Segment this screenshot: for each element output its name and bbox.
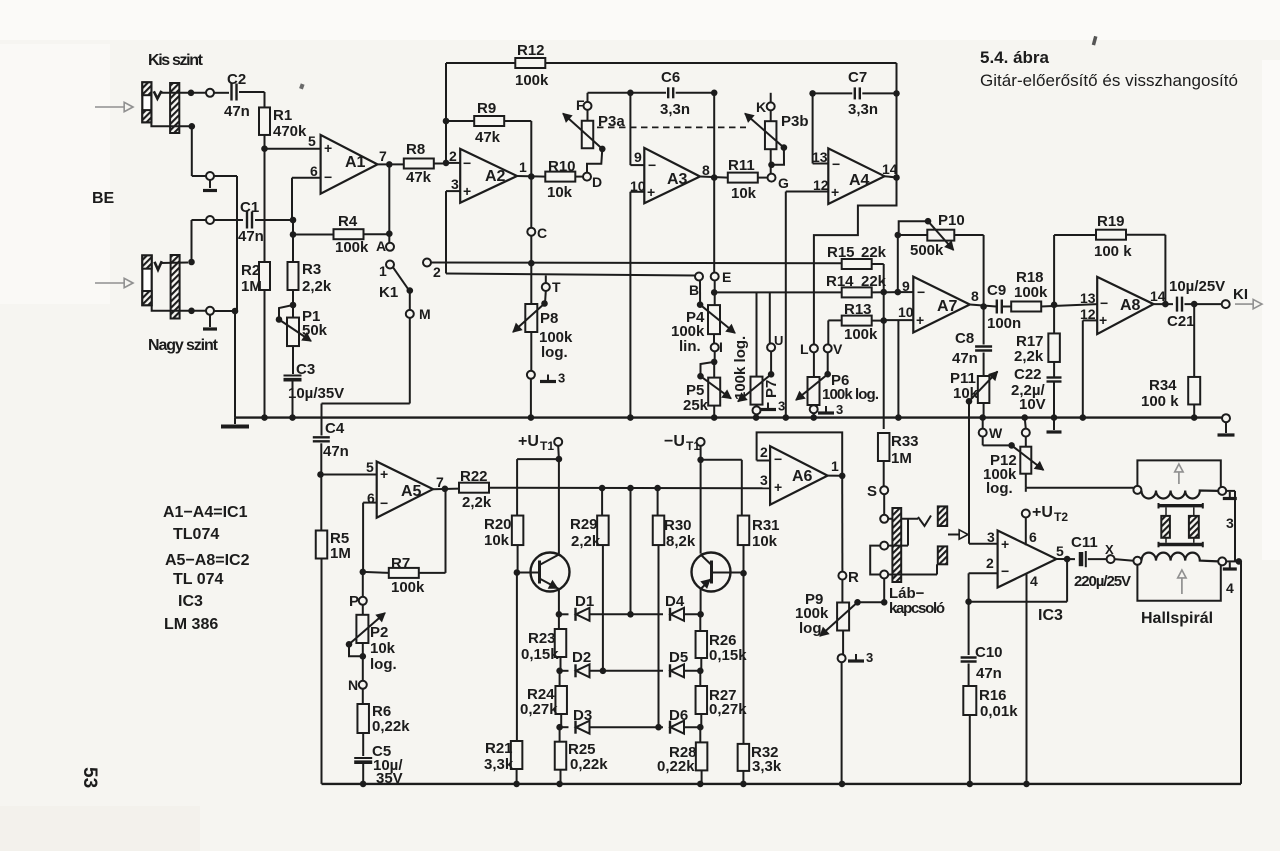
output arrow KI (1235, 303, 1253, 305)
node N (362, 643, 364, 681)
svg-text:6: 6 (310, 163, 318, 179)
node B (695, 273, 703, 281)
wire R1 node to A1 pin5 (265, 148, 321, 150)
op-amp A1 (321, 135, 378, 194)
svg-text:C1: C1 (240, 199, 259, 216)
svg-text:P: P (349, 593, 359, 610)
wire -UT1 rail (701, 459, 742, 461)
potentiometer P12 (1022, 429, 1030, 437)
svg-text:C9: C9 (987, 282, 1006, 299)
svg-text:C4: C4 (325, 420, 345, 437)
node K (770, 93, 772, 103)
resistor R24 (559, 671, 561, 686)
svg-text:C8: C8 (955, 330, 974, 347)
svg-text:2: 2 (986, 555, 994, 571)
wire R13 node down to R33 (883, 292, 885, 429)
wire A5 pin5 (321, 474, 376, 476)
wire A8 pin12 to bus (1083, 319, 1097, 321)
wire R31 to T2 base (743, 545, 745, 573)
svg-text:C11: C11 (1071, 534, 1098, 551)
potentiometer P7 (751, 377, 763, 405)
svg-text:47n: 47n (976, 665, 1002, 682)
wire P5 to bus (713, 406, 715, 418)
svg-text:100k: 100k (1014, 284, 1048, 301)
svg-text:100n: 100n (987, 315, 1021, 332)
capacitor C3 electrolytic (284, 375, 302, 377)
diode D5 (669, 664, 671, 677)
svg-text:100k log.: 100k log. (822, 386, 879, 403)
resistor R26 (699, 614, 701, 631)
resistor R14 (842, 287, 872, 297)
wire A6 output to R (828, 475, 843, 477)
capacitor C22 (1053, 362, 1055, 378)
svg-text:10k: 10k (547, 184, 573, 201)
svg-text:+: + (1099, 312, 1107, 328)
svg-text:3: 3 (760, 472, 768, 488)
resistor R31 (738, 516, 750, 546)
svg-text:+: + (774, 479, 782, 495)
wire R29 to D2 line (602, 545, 604, 671)
footswitch contact bottom (880, 571, 888, 579)
svg-text:−U: −U (664, 433, 685, 450)
node X (1088, 558, 1107, 560)
resistor R25 (559, 727, 561, 742)
wire C6 right to A3 out column (676, 92, 715, 94)
wire footswitch to P9 wiper line (883, 579, 885, 603)
svg-text:R30: R30 (664, 517, 692, 534)
wire C22 to bus (1053, 382, 1055, 418)
resistor R30 (657, 488, 659, 515)
svg-text:Hallspirál: Hallspirál (1141, 610, 1213, 627)
svg-text:10µ/25V: 10µ/25V (1169, 278, 1225, 295)
wire A2 output (517, 175, 546, 178)
wire A8 output (1154, 303, 1174, 305)
resistor R12 (515, 58, 545, 68)
op-amp A4 (828, 148, 884, 204)
svg-text:R14: R14 (826, 273, 854, 290)
svg-text:−: − (917, 284, 925, 300)
svg-text:+: + (380, 466, 388, 482)
wire R30 to D3 line (658, 545, 660, 727)
svg-text:E: E (722, 269, 731, 285)
wire P8 to terminal (530, 332, 532, 371)
big ground symbol (234, 418, 236, 424)
node P (362, 572, 364, 597)
svg-text:A5−A8=IC2: A5−A8=IC2 (165, 552, 250, 569)
svg-text:−: − (774, 451, 782, 467)
svg-text:−: − (1001, 563, 1009, 579)
svg-text:22k: 22k (861, 273, 887, 290)
wire P1 to C3 (292, 346, 294, 374)
resistor R4 (293, 234, 334, 236)
wire T1 base column to bottom rail (516, 573, 518, 742)
wire R13 left to V column (828, 319, 841, 321)
svg-text:47k: 47k (406, 169, 432, 186)
svg-text:F: F (576, 97, 585, 113)
svg-text:100k: 100k (335, 239, 369, 256)
svg-text:R15: R15 (827, 244, 855, 261)
svg-text:A6: A6 (792, 468, 813, 485)
svg-text:R1: R1 (273, 107, 292, 124)
svg-text:5.4. ábra: 5.4. ábra (980, 48, 1050, 67)
svg-text:4: 4 (1226, 580, 1234, 596)
transformer top box (1137, 460, 1220, 487)
wire L to P6 (813, 352, 815, 377)
wire P11 wiper to IC3 pin3 (968, 401, 970, 544)
svg-text:P2: P2 (370, 624, 388, 641)
svg-text:X: X (1105, 542, 1114, 557)
footswitch plug (892, 508, 901, 582)
wiper P4 from B (699, 280, 701, 305)
ground jack2 (209, 315, 211, 327)
svg-text:3: 3 (1226, 515, 1234, 531)
wire D6 to R27 node (684, 726, 700, 728)
potentiometer P10 (898, 234, 928, 236)
wire A5 pin6 loop (363, 502, 377, 504)
ganged dashed line (597, 126, 746, 128)
wire R12 top line (446, 62, 515, 64)
node KI output (1222, 300, 1230, 308)
node S (880, 486, 888, 494)
wire P8 terminal to bus (530, 379, 532, 418)
wire R14 right junction (872, 291, 898, 293)
wire IC3 pin4 to bottom rail (1026, 574, 1028, 784)
node U (769, 292, 771, 343)
wire A2 pin2 column (445, 63, 447, 163)
transformer top arrow (1178, 470, 1180, 484)
potentiometer P1 (292, 305, 294, 318)
svg-text:R11: R11 (728, 157, 755, 174)
svg-text:R19: R19 (1097, 213, 1125, 230)
diode D6 (669, 721, 671, 734)
svg-text:P7: P7 (763, 380, 780, 398)
svg-text:I: I (719, 339, 723, 355)
resistor R19 feedback (1053, 235, 1055, 305)
resistor R34 (1193, 304, 1195, 377)
svg-text:A4: A4 (849, 172, 870, 189)
potentiometer P4 (708, 305, 720, 334)
node R (838, 572, 846, 580)
svg-text:3: 3 (451, 176, 459, 192)
svg-text:K: K (756, 99, 766, 115)
svg-text:R21: R21 (485, 740, 513, 757)
wire P9 to bottom rail (841, 662, 843, 784)
jack J1 tip contact (154, 91, 162, 99)
wire R23 to D2 line (560, 657, 562, 671)
wire D1 line (590, 613, 664, 615)
resistor R9 (446, 120, 475, 122)
svg-text:M: M (419, 306, 431, 322)
wire R8 to A2 pin2 (434, 163, 446, 165)
ground mark 3 at P7 (767, 403, 769, 410)
svg-text:−: − (463, 155, 471, 171)
wire jack1 ground to jack2 column (214, 175, 237, 177)
svg-text:5: 5 (366, 459, 374, 475)
wiper P10 (899, 221, 928, 232)
op-amp A8 (1097, 277, 1153, 334)
resistor R8 (404, 159, 434, 169)
wire R34 to bus (1193, 405, 1195, 418)
wire C column (530, 177, 532, 228)
wire P12 to transformer (1025, 488, 1027, 492)
svg-text:A7: A7 (937, 298, 958, 315)
resistor R6 (362, 689, 364, 704)
input arrow 1 (95, 106, 124, 108)
jack J2 Nagy szint plug (142, 255, 151, 305)
svg-text:R33: R33 (891, 433, 919, 450)
wiper P3b bracket to G (772, 148, 785, 165)
svg-text:BE: BE (92, 190, 115, 207)
svg-text:2: 2 (449, 148, 457, 164)
svg-text:100k: 100k (844, 326, 878, 343)
wire A5 output (433, 488, 459, 491)
svg-text:log.: log. (370, 656, 397, 673)
wire jack1 tip to C2 (160, 92, 207, 94)
wire A4 pin12 to ground bus (786, 191, 829, 193)
wire R2 bottom to bus (264, 290, 266, 418)
wire R12 right column (896, 63, 898, 93)
svg-text:A8: A8 (1120, 297, 1141, 314)
resistor R32 (738, 744, 750, 771)
potentiometer P11 (983, 353, 985, 377)
svg-text:3: 3 (778, 399, 785, 414)
wire S to footswitch (883, 494, 885, 515)
wire A1 output node (378, 163, 404, 165)
svg-text:R16: R16 (979, 687, 1007, 704)
svg-text:500k: 500k (910, 242, 944, 259)
svg-text:7: 7 (379, 148, 387, 164)
svg-text:D5: D5 (669, 649, 688, 666)
wire R20 to T1 base (517, 545, 519, 573)
wire R32 to bottom rail (742, 771, 744, 784)
wire V to P6 wiper (827, 352, 829, 374)
svg-text:Kis szint: Kis szint (148, 52, 204, 69)
potentiometer P3a (587, 110, 589, 121)
svg-text:G: G (778, 175, 789, 191)
svg-text:+: + (463, 183, 471, 199)
svg-text:9: 9 (634, 149, 642, 165)
wire jack2 tip up to C1 line (160, 262, 188, 265)
wire IC3 output (1056, 558, 1075, 560)
resistor R22 (459, 483, 489, 493)
potentiometer P8 (530, 263, 532, 304)
svg-text:P10: P10 (938, 212, 965, 229)
svg-text:C: C (537, 225, 547, 241)
svg-text:N: N (348, 677, 358, 693)
wire P9 to terminal (842, 631, 844, 655)
svg-text:D2: D2 (572, 649, 591, 666)
svg-text:R20: R20 (484, 516, 512, 533)
svg-text:+U: +U (518, 433, 539, 450)
wire A3 pin9 column (629, 93, 631, 165)
svg-text:+: + (1001, 536, 1009, 552)
svg-text:9: 9 (902, 278, 910, 294)
wire C6 line (587, 93, 589, 102)
svg-text:−: − (380, 495, 388, 511)
wire R21 to bottom rail (516, 769, 518, 784)
svg-text:6: 6 (1029, 529, 1037, 545)
svg-text:100k: 100k (391, 579, 425, 596)
node E (711, 273, 719, 281)
svg-text:R10: R10 (548, 158, 576, 175)
wire P7 to terminal and bus (756, 405, 758, 407)
transformer spring left (1165, 507, 1167, 516)
svg-text:10: 10 (898, 304, 914, 320)
svg-text:+: + (831, 184, 839, 200)
svg-text:10k: 10k (752, 533, 778, 550)
svg-text:D4: D4 (665, 593, 685, 610)
svg-text:Gitár-előerősítő és visszhango: Gitár-előerősítő és visszhangosító (980, 71, 1238, 90)
svg-text:K1: K1 (379, 284, 398, 301)
svg-text:10k: 10k (484, 532, 510, 549)
wire C3 to bus (292, 381, 294, 418)
svg-text:2,2k: 2,2k (1014, 348, 1044, 365)
wire C5 to bottom rail (362, 764, 364, 784)
op-amp A2 (460, 149, 517, 203)
wire A7 pin10 to bus (884, 319, 914, 321)
output jack (938, 506, 947, 526)
transformer secondary coil (1141, 553, 1218, 562)
svg-text:D3: D3 (573, 707, 592, 724)
wire R15 right (872, 263, 884, 265)
transistor T1 (531, 553, 570, 592)
svg-text:TL074: TL074 (173, 526, 219, 543)
resistor R17 (1053, 305, 1055, 334)
svg-text:lin.: lin. (679, 338, 701, 355)
wire C1 to pin6 node (255, 219, 293, 221)
wire R4 right to A node (364, 233, 390, 235)
svg-text:47n: 47n (238, 228, 264, 245)
wire middle column (630, 488, 632, 614)
svg-text:A1: A1 (345, 154, 366, 171)
wire D2 line (590, 670, 664, 672)
svg-text:220µ/25V: 220µ/25V (1074, 573, 1131, 590)
ground below C22 (1053, 418, 1055, 430)
svg-text:0,22k: 0,22k (570, 756, 608, 773)
wire C21 to KI (1185, 303, 1222, 305)
svg-text:10k: 10k (370, 640, 396, 657)
svg-text:13: 13 (1080, 290, 1096, 306)
wire C2 to R1 top (239, 91, 265, 93)
svg-text:R7: R7 (391, 555, 410, 572)
wire P11 to bus and W (983, 403, 985, 418)
svg-text:47k: 47k (475, 129, 501, 146)
capacitor C2 (230, 84, 232, 101)
wire R16 to bottom rail (969, 715, 971, 784)
svg-text:3: 3 (836, 402, 843, 417)
supply +UT2 (1022, 510, 1030, 518)
capacitor C1 (246, 212, 248, 229)
node G (758, 177, 768, 179)
svg-text:T: T (552, 279, 561, 295)
bus end terminal and ground (1222, 414, 1230, 422)
svg-text:100k log.: 100k log. (732, 336, 749, 400)
svg-text:Nagy szint: Nagy szint (148, 337, 219, 354)
footswitch bracket (870, 546, 880, 575)
wire A3 pin10 to bus (630, 191, 644, 193)
wire T2 base column to R32 (743, 573, 745, 744)
output jack arrow (948, 534, 959, 536)
wire A3 out column up (713, 93, 715, 178)
wire D3 line (590, 726, 664, 728)
resistor R11 (728, 173, 758, 183)
diode D3 (560, 726, 569, 728)
svg-text:3,3n: 3,3n (660, 101, 690, 118)
svg-text:47n: 47n (952, 350, 978, 367)
svg-text:C7: C7 (848, 69, 867, 86)
svg-text:2: 2 (433, 264, 441, 280)
svg-text:T2: T2 (1054, 510, 1068, 524)
wire E to R14 line (714, 291, 842, 293)
svg-text:T1: T1 (540, 439, 554, 453)
wire R1 bottom to A1 pin5 node (264, 135, 266, 149)
wire R33 to S (883, 461, 885, 486)
wire A4 pin13 column (812, 93, 814, 163)
svg-text:W: W (989, 425, 1003, 441)
svg-text:1M: 1M (891, 450, 912, 467)
svg-text:100 k: 100 k (1094, 243, 1132, 260)
footswitch jack contact top (880, 515, 888, 523)
svg-text:U: U (774, 333, 783, 348)
capacitor C9 (996, 300, 998, 314)
svg-text:10k: 10k (731, 185, 757, 202)
wiper P5 bracket (701, 362, 715, 376)
wiper P1 bracket (279, 305, 293, 320)
transformer primary terminal right (1218, 487, 1226, 495)
wiper P8 link (544, 291, 547, 304)
svg-text:R3: R3 (302, 261, 321, 278)
svg-text:−: − (832, 156, 840, 172)
resistor R10 (545, 172, 575, 182)
wiper P3a bracket to D (587, 149, 602, 173)
wire P12 bottom (1025, 474, 1027, 488)
wire C4 to A5 pin5 (320, 443, 322, 474)
svg-text:100k: 100k (515, 72, 549, 89)
op-amp A7 (913, 277, 970, 333)
svg-text:470k: 470k (273, 123, 307, 140)
ground mark 3 at P6 (825, 406, 827, 413)
capacitor C8 (983, 307, 985, 345)
svg-text:2,2k: 2,2k (571, 533, 601, 550)
wire R13 right junction (872, 320, 884, 322)
svg-text:100 k: 100 k (1141, 393, 1179, 410)
resistor R3 (292, 235, 294, 263)
svg-text:−: − (1100, 295, 1108, 311)
wire P9 wiper to footswitch (858, 601, 885, 603)
svg-text:LM 386: LM 386 (164, 616, 218, 633)
svg-text:+U: +U (1032, 504, 1053, 521)
right edge rail (1240, 561, 1242, 784)
svg-text:22k: 22k (861, 244, 887, 261)
svg-text:0,01k: 0,01k (980, 703, 1018, 720)
svg-text:8: 8 (971, 288, 979, 304)
svg-text:V: V (833, 341, 843, 357)
resistor R2 (264, 135, 266, 262)
switch K1 arm (393, 267, 409, 290)
svg-text:A3: A3 (667, 171, 688, 188)
svg-text:C10: C10 (975, 644, 1003, 661)
svg-text:kapcsoló: kapcsoló (889, 600, 945, 617)
svg-text:R22: R22 (460, 468, 488, 485)
svg-text:3: 3 (987, 529, 995, 545)
wire T2 collector column (700, 460, 702, 554)
svg-text:10µ/35V: 10µ/35V (288, 385, 344, 402)
wire R24 to D3 line (560, 714, 562, 727)
resistor R13 (842, 316, 872, 326)
resistor R7 (360, 569, 367, 576)
wiper P2 bracket (349, 644, 363, 656)
wire X to transformer (1115, 559, 1134, 561)
